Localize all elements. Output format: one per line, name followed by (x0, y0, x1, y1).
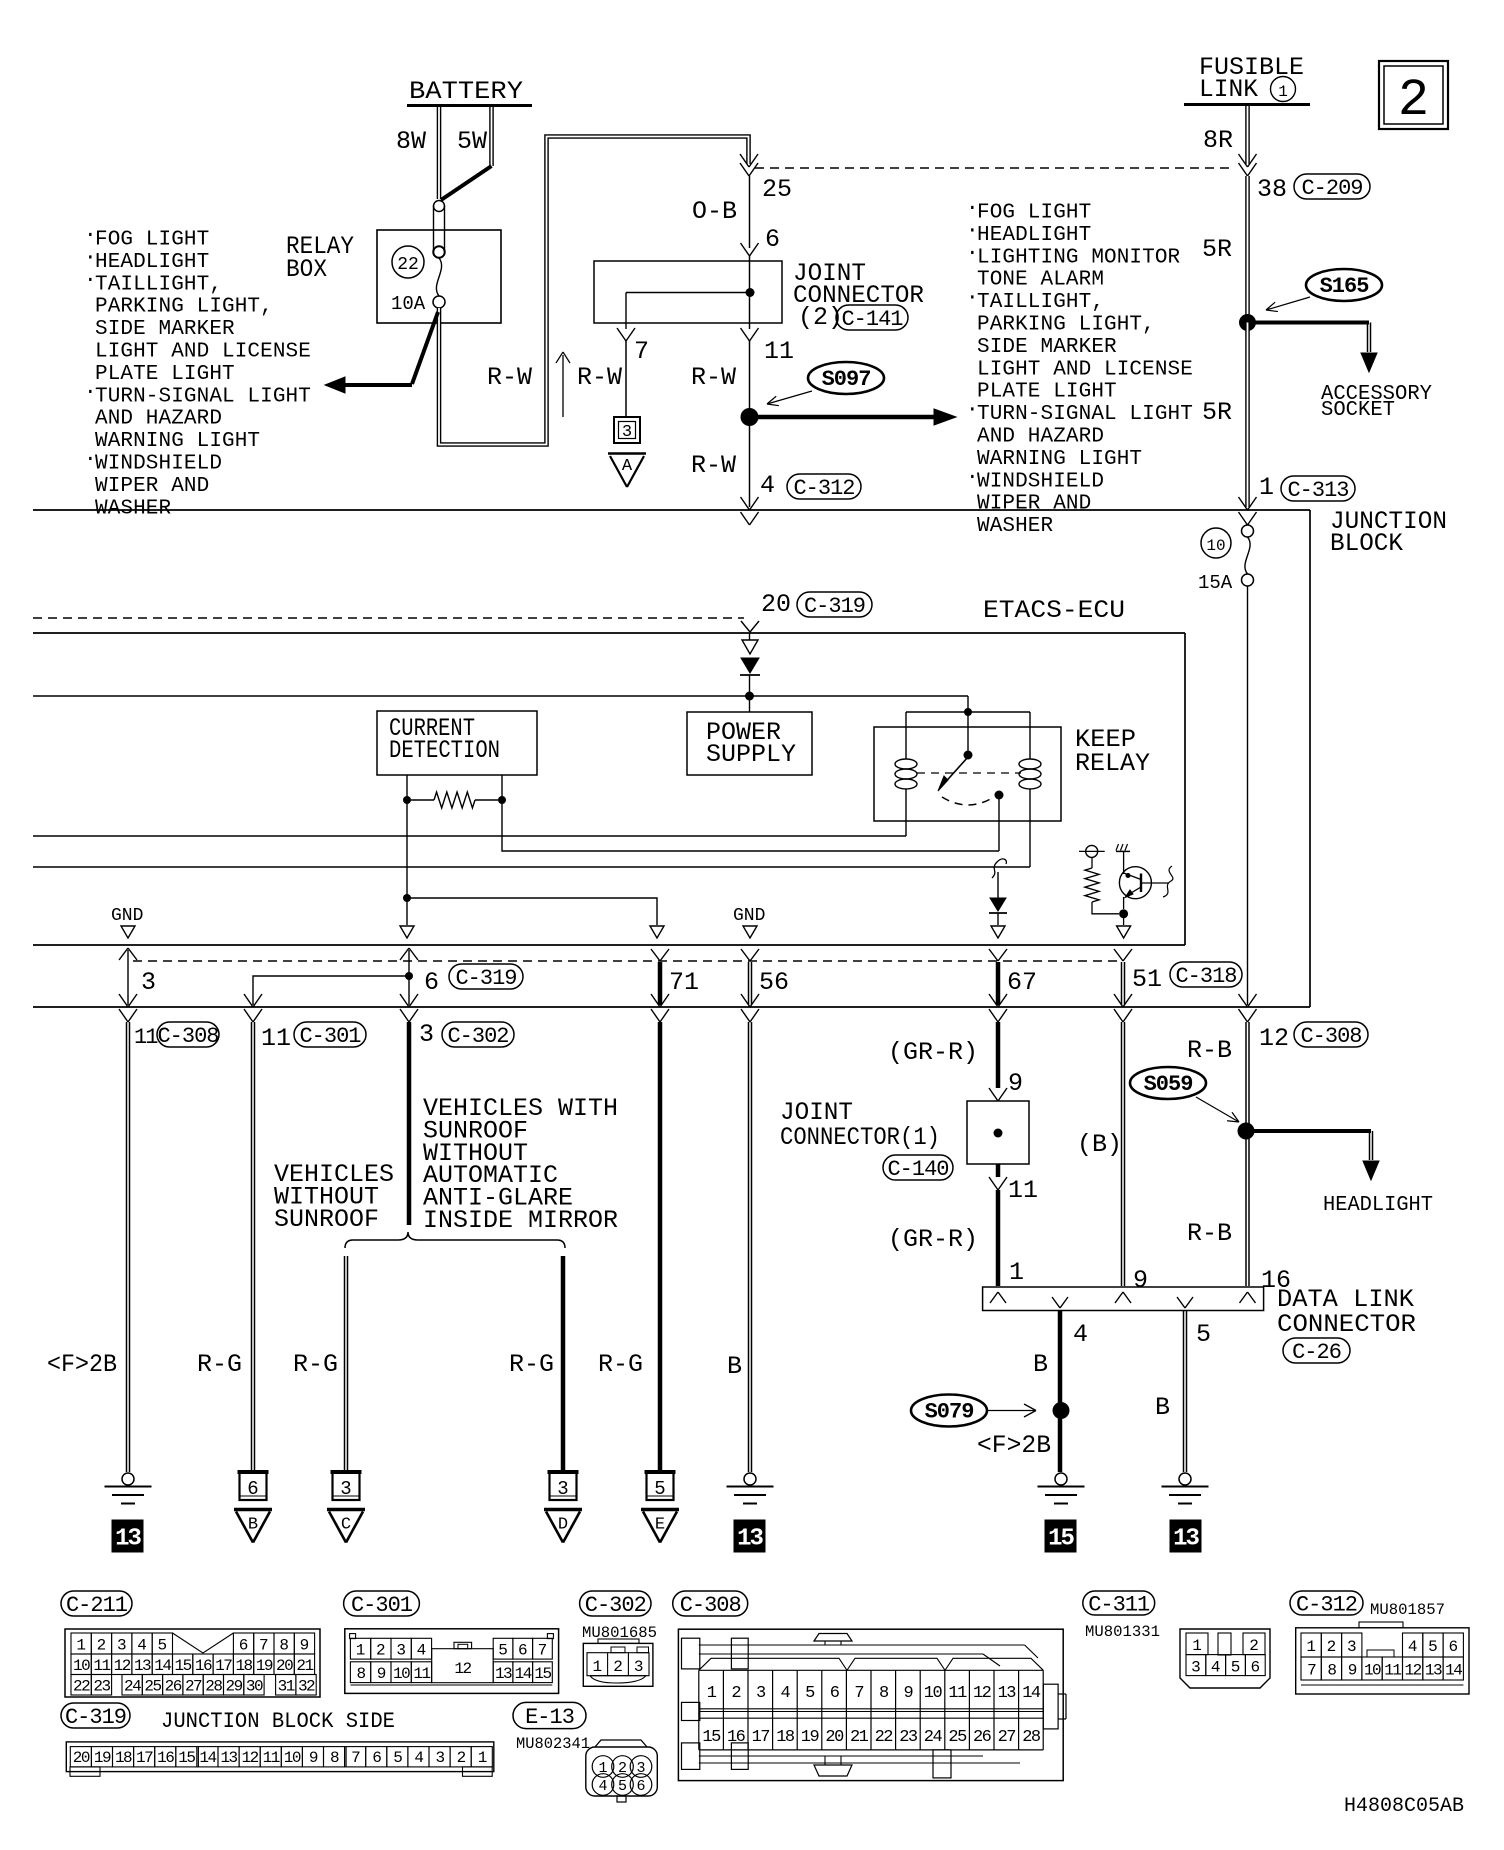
power rail inside ETACS (33, 695, 968, 697)
current detection stubs (406, 775, 408, 800)
svg-text:12: 12 (114, 1657, 131, 1675)
connector C-301 drawing (345, 1629, 559, 1694)
svg-text:2: 2 (1327, 1638, 1337, 1656)
gnd triangle GND right (743, 926, 757, 938)
gnd triangle diode (991, 926, 1005, 938)
keep relay top rail (906, 711, 1030, 713)
fusible link bar (1184, 103, 1310, 106)
wire 5W from battery (489, 107, 494, 166)
svg-text:3: 3 (419, 1020, 434, 1049)
svg-text:S059: S059 (1144, 1072, 1193, 1097)
svg-text:5: 5 (498, 1641, 508, 1659)
svg-text:8: 8 (356, 1665, 365, 1683)
svg-text:25: 25 (948, 1728, 967, 1747)
svg-text:14: 14 (154, 1657, 171, 1675)
svg-text:FOG LIGHT: FOG LIGHT (977, 202, 1091, 225)
ground 5 black box 13 (1170, 1520, 1201, 1552)
ground 5 (1179, 1473, 1191, 1485)
diode solid triangle with bar (741, 658, 759, 673)
svg-text:15: 15 (175, 1657, 192, 1675)
connector E-13 drawing (586, 1740, 658, 1802)
svg-text:B: B (727, 1352, 742, 1381)
svg-text:C-319: C-319 (455, 966, 516, 991)
svg-text:8R: 8R (1203, 126, 1233, 155)
keep relay left coil (905, 712, 907, 759)
svg-text:<F>2B: <F>2B (977, 1431, 1051, 1460)
svg-text:4: 4 (781, 1684, 791, 1703)
svg-text:10: 10 (73, 1657, 90, 1675)
svg-text:30: 30 (246, 1678, 263, 1696)
joint connector 1 box (967, 1101, 1029, 1164)
svg-text:C-319: C-319 (65, 1705, 126, 1730)
svg-text:PARKING LIGHT,: PARKING LIGHT, (95, 296, 273, 319)
junction dot power supply (745, 692, 754, 701)
chevrons wire12 out of junction block (1239, 994, 1248, 1007)
connector box 3 (to A) (614, 417, 640, 443)
wire to power supply box (749, 696, 751, 712)
svg-text:C-301: C-301 (351, 1593, 413, 1618)
svg-text:3: 3 (396, 1641, 406, 1659)
S059 leader (1196, 1097, 1239, 1122)
svg-text:9: 9 (904, 1684, 914, 1703)
svg-text:4: 4 (414, 1749, 423, 1767)
ETACS box right edge (1184, 633, 1186, 945)
junction S165 dot (1239, 314, 1256, 331)
svg-text:9: 9 (309, 1749, 318, 1767)
wire 67 below joint connector (989, 1177, 998, 1190)
capsule C-302 (580, 1591, 651, 1616)
svg-text:LIGHT AND LICENSE: LIGHT AND LICENSE (95, 341, 311, 364)
ground node dot (403, 894, 411, 902)
wire 20 into ETACS (749, 633, 751, 640)
branch wire to C-301 (253, 976, 409, 1005)
connector C-308 drawing (678, 1629, 1066, 1780)
svg-text:2: 2 (457, 1749, 466, 1767)
svg-text:15: 15 (178, 1749, 195, 1767)
wire 3 (GND to C-319) (119, 948, 128, 960)
bus wire y836 (33, 835, 906, 837)
svg-text:O-B: O-B (692, 197, 737, 226)
connector box 5 (647, 1472, 674, 1500)
svg-text:JUNCTION BLOCK SIDE: JUNCTION BLOCK SIDE (161, 1709, 395, 1734)
svg-text:11: 11 (261, 1024, 291, 1053)
svg-text:29: 29 (226, 1678, 243, 1696)
wire 56 (741, 949, 750, 961)
wire 5 DLC (1183, 1311, 1185, 1473)
ground 56 black box 13 (734, 1520, 765, 1552)
svg-text:16: 16 (727, 1728, 746, 1747)
svg-text:R-G: R-G (598, 1350, 643, 1379)
svg-text:SIDE MARKER: SIDE MARKER (977, 336, 1117, 359)
svg-text:FOG LIGHT: FOG LIGHT (95, 229, 209, 252)
svg-text:9: 9 (1348, 1662, 1357, 1680)
svg-text:1: 1 (478, 1749, 487, 1767)
svg-text:6: 6 (239, 1637, 249, 1655)
svg-text:C-311: C-311 (1088, 1593, 1150, 1618)
svg-text:R-W: R-W (577, 363, 622, 392)
svg-text:18: 18 (235, 1657, 252, 1675)
up arrow R-W (562, 355, 564, 417)
svg-text:B: B (1033, 1350, 1048, 1379)
svg-text:R-G: R-G (293, 1350, 338, 1379)
svg-text:(GR-R): (GR-R) (888, 1225, 978, 1254)
svg-text:ETACS-ECU: ETACS-ECU (983, 596, 1125, 625)
fuse 15A symbol (1247, 524, 1249, 527)
svg-text:PLATE LIGHT: PLATE LIGHT (977, 381, 1117, 404)
ground 4 (1055, 1473, 1067, 1485)
svg-text:12: 12 (454, 1660, 471, 1678)
svg-text:PARKING LIGHT,: PARKING LIGHT, (977, 314, 1155, 337)
capsule C-26 (1283, 1338, 1350, 1363)
svg-text:(B): (B) (1077, 1130, 1122, 1159)
svg-text:3: 3 (1191, 1659, 1201, 1677)
svg-text:1: 1 (1278, 83, 1288, 101)
svg-text:17: 17 (136, 1749, 153, 1767)
keep relay switch (967, 712, 969, 755)
wire 11 through S097 (749, 256, 751, 329)
svg-text:R-G: R-G (197, 1350, 242, 1379)
svg-text:13: 13 (998, 1684, 1017, 1703)
svg-text:27: 27 (185, 1678, 202, 1696)
connector box 3 right (550, 1472, 577, 1500)
svg-text:15: 15 (702, 1728, 721, 1747)
triangle E (641, 1508, 679, 1512)
svg-text:E-13: E-13 (525, 1705, 574, 1730)
S059 branch to headlight (1246, 1129, 1371, 1133)
svg-text:5: 5 (158, 1637, 168, 1655)
svg-text:1: 1 (76, 1637, 86, 1655)
svg-text:20: 20 (276, 1657, 293, 1675)
svg-text:15: 15 (1048, 1526, 1074, 1553)
svg-text:13: 13 (495, 1665, 512, 1683)
transistor chassis mark (1116, 850, 1130, 852)
svg-text:6: 6 (830, 1684, 840, 1703)
ground 4 black box 15 (1045, 1520, 1076, 1552)
svg-text:8: 8 (1327, 1662, 1336, 1680)
svg-text:BATTERY: BATTERY (409, 77, 523, 106)
svg-text:19: 19 (256, 1657, 273, 1675)
svg-text:HEADLIGHT: HEADLIGHT (977, 224, 1091, 247)
wire 5W diagonal (441, 166, 492, 200)
svg-text:12: 12 (973, 1684, 991, 1703)
svg-text:C-302: C-302 (585, 1593, 646, 1618)
svg-text:E: E (655, 1516, 665, 1535)
svg-text:AND HAZARD: AND HAZARD (977, 426, 1104, 449)
svg-text:4: 4 (1073, 1320, 1088, 1349)
svg-text:2: 2 (1398, 71, 1429, 130)
svg-text:3: 3 (435, 1749, 444, 1767)
svg-text:28: 28 (205, 1678, 222, 1696)
wire shunt ground down (406, 898, 408, 925)
svg-text:TURN-SIGNAL LIGHT: TURN-SIGNAL LIGHT (977, 403, 1193, 426)
junction S097 dot (741, 408, 759, 426)
connector C-312 drawing (1296, 1622, 1469, 1694)
svg-text:S097: S097 (822, 367, 871, 392)
wire 6 C-319 arrow (400, 948, 409, 960)
svg-text:4: 4 (137, 1637, 147, 1655)
svg-text:3: 3 (141, 968, 156, 997)
svg-text:C-141: C-141 (841, 307, 903, 332)
svg-text:17: 17 (215, 1657, 232, 1675)
capsule C-311 (1083, 1591, 1155, 1615)
transistor emitter node (1119, 909, 1128, 918)
keep relay feed corner (967, 696, 969, 712)
svg-text:5: 5 (1196, 1320, 1211, 1349)
fuse 10 circled (1201, 528, 1231, 558)
svg-text:11: 11 (93, 1657, 110, 1675)
svg-text:11: 11 (948, 1684, 967, 1703)
S097 leader (767, 391, 812, 404)
capsule C-301 (344, 1591, 420, 1616)
ETACS box top edge (33, 632, 1185, 634)
svg-text:15: 15 (534, 1665, 551, 1683)
svg-text:28: 28 (1022, 1728, 1041, 1747)
svg-text:8: 8 (279, 1637, 289, 1655)
svg-text:S165: S165 (1320, 274, 1370, 299)
bus wire y851 (502, 800, 999, 851)
circled 1 (1271, 77, 1296, 102)
svg-text:9: 9 (377, 1665, 386, 1683)
triangle B (234, 1508, 272, 1512)
junction block top edge (33, 509, 1310, 511)
svg-text:7: 7 (259, 1637, 269, 1655)
svg-text:C-313: C-313 (1287, 478, 1348, 503)
svg-text:2: 2 (731, 1684, 740, 1703)
triangle D (544, 1508, 582, 1512)
svg-text:BOX: BOX (286, 255, 327, 284)
diode 67 continuation squiggle (992, 859, 1006, 878)
wire inside junction block right (1247, 586, 1249, 1005)
svg-text:6: 6 (1250, 1659, 1260, 1677)
svg-text:C-308: C-308 (1300, 1024, 1361, 1049)
wire 5R lower (1245, 323, 1250, 508)
bus wire y867 (33, 866, 1030, 868)
branch arrow to other circuits (412, 312, 438, 384)
svg-text:BLOCK: BLOCK (1330, 529, 1403, 558)
wire sunroof branch thick (561, 1256, 566, 1472)
relay box (377, 230, 501, 323)
svg-text:GND: GND (111, 906, 143, 926)
svg-text:3: 3 (117, 1637, 127, 1655)
connector C-302 drawing (583, 1639, 653, 1686)
S059 ellipse (1130, 1067, 1206, 1099)
svg-text:WARNING LIGHT: WARNING LIGHT (977, 448, 1142, 471)
svg-text:5: 5 (1428, 1638, 1438, 1656)
svg-text:4: 4 (1408, 1638, 1418, 1656)
svg-text:R-W: R-W (691, 363, 736, 392)
svg-text:1: 1 (1009, 1258, 1024, 1287)
DLC chevrons (990, 1292, 998, 1303)
svg-text:4: 4 (760, 471, 775, 500)
diode 67 (997, 872, 999, 898)
capsule C-141 (836, 305, 908, 330)
svg-text:D: D (558, 1516, 568, 1535)
ETACS box bottom edge (33, 944, 1185, 946)
connector box 6 (240, 1472, 267, 1500)
svg-text:3: 3 (1347, 1638, 1357, 1656)
svg-text:A: A (622, 457, 633, 476)
svg-text:16: 16 (195, 1657, 212, 1675)
svg-text:12: 12 (242, 1749, 259, 1767)
wire 11 C-308 left (126, 1022, 128, 1472)
svg-text:6: 6 (372, 1749, 381, 1767)
svg-text:13: 13 (1173, 1526, 1199, 1553)
svg-text:WARNING LIGHT: WARNING LIGHT (95, 430, 260, 453)
svg-text:DETECTION: DETECTION (389, 736, 500, 765)
svg-text:C-26: C-26 (1292, 1340, 1341, 1365)
svg-text:S079: S079 (925, 1400, 974, 1425)
dashed connector line C-319/C-318 (133, 960, 1123, 962)
svg-text:C-318: C-318 (1175, 964, 1236, 989)
transistor output squiggle (1141, 882, 1169, 884)
svg-text:3: 3 (340, 1478, 351, 1500)
svg-text:14: 14 (199, 1749, 216, 1767)
svg-text:SUNROOF: SUNROOF (274, 1205, 379, 1234)
svg-text:14: 14 (1445, 1662, 1462, 1680)
svg-text:B: B (1155, 1393, 1170, 1422)
svg-text:3: 3 (634, 1658, 644, 1676)
svg-text:14: 14 (515, 1665, 532, 1683)
capsule E-13 (513, 1702, 586, 1728)
svg-text:WINDSHIELD: WINDSHIELD (977, 470, 1104, 493)
page number box 2 (1379, 61, 1448, 129)
svg-text:C-312: C-312 (793, 476, 854, 501)
svg-text:10: 10 (924, 1684, 943, 1703)
svg-text:18: 18 (776, 1728, 795, 1747)
svg-text:5: 5 (393, 1749, 402, 1767)
joint connector (2) inner wire (626, 292, 750, 294)
data link connector box (983, 1287, 1264, 1311)
S097 ellipse (808, 362, 884, 394)
keep relay box (874, 727, 1061, 821)
junction block bottom edge (33, 1006, 1310, 1008)
svg-text:22: 22 (875, 1728, 893, 1747)
svg-text:38: 38 (1257, 175, 1287, 204)
S097 branch arrow (750, 415, 937, 420)
svg-text:LIGHT AND LICENSE: LIGHT AND LICENSE (977, 358, 1193, 381)
svg-text:22: 22 (73, 1678, 90, 1696)
chevron pin 7 (617, 328, 626, 341)
capsule C-211 (61, 1591, 132, 1616)
dashed wire 20 C-319 (33, 617, 744, 619)
wire 3 C-302 thick (407, 1022, 412, 1225)
svg-text:C-140: C-140 (887, 1157, 948, 1182)
svg-text:GND: GND (733, 906, 765, 926)
ground left (122, 1473, 134, 1485)
wire from relay box down (439, 137, 749, 445)
junction S059 dot (1238, 1123, 1255, 1140)
svg-text:12: 12 (1405, 1662, 1422, 1680)
svg-text:HEADLIGHT: HEADLIGHT (1323, 1194, 1433, 1217)
svg-text:C-209: C-209 (1301, 176, 1362, 201)
svg-text:5: 5 (1231, 1659, 1241, 1677)
power supply box (687, 712, 812, 775)
S079 arrow (987, 1410, 1036, 1412)
gnd triangle branch (650, 926, 664, 938)
junction S079 dot (1053, 1402, 1070, 1419)
pullup circle (1086, 845, 1098, 857)
keep relay common wire (998, 795, 1000, 851)
svg-text:13: 13 (134, 1657, 151, 1675)
wire R-B lower (1245, 1131, 1247, 1286)
chevron 8R to dashed (1239, 154, 1248, 167)
svg-text:8W: 8W (396, 127, 426, 156)
left circuits list (84, 225, 311, 521)
svg-text:R-B: R-B (1187, 1219, 1232, 1248)
svg-text:8: 8 (879, 1684, 889, 1703)
svg-text:19: 19 (801, 1728, 820, 1747)
svg-text:56: 56 (759, 968, 789, 997)
svg-text:4: 4 (598, 1778, 607, 1795)
svg-text:10: 10 (393, 1665, 410, 1683)
gnd triangle shunt (400, 926, 414, 938)
svg-text:15A: 15A (1198, 572, 1233, 594)
svg-text:6: 6 (636, 1778, 645, 1795)
circled 22 (392, 246, 424, 278)
svg-text:MU801331: MU801331 (1085, 1623, 1160, 1641)
svg-text:C-308: C-308 (157, 1024, 218, 1049)
wire 7 down to connector 3 (625, 341, 627, 417)
svg-text:71: 71 (669, 968, 699, 997)
keep relay dashed link (917, 772, 1021, 774)
battery bar (407, 104, 532, 107)
svg-text:19: 19 (94, 1749, 111, 1767)
svg-text:1: 1 (1306, 1638, 1316, 1656)
capsule C-140 (883, 1155, 953, 1180)
S165 ellipse (1306, 269, 1382, 301)
svg-text:9: 9 (1008, 1069, 1023, 1098)
svg-text:11: 11 (263, 1749, 280, 1767)
current detection box (377, 711, 537, 775)
svg-text:7: 7 (538, 1641, 548, 1659)
svg-text:9: 9 (300, 1637, 310, 1655)
svg-text:25: 25 (762, 175, 792, 204)
gnd triangle transistor (1117, 926, 1131, 938)
svg-text:26: 26 (165, 1678, 182, 1696)
svg-text:10: 10 (284, 1749, 301, 1767)
svg-text:2: 2 (376, 1641, 386, 1659)
svg-text:C-302: C-302 (447, 1024, 508, 1049)
triangle A (608, 452, 646, 455)
svg-text:AND HAZARD: AND HAZARD (95, 408, 222, 431)
svg-text:MU802341: MU802341 (516, 1735, 590, 1753)
joint connector (2) junction dot (746, 288, 755, 297)
svg-text:21: 21 (850, 1728, 869, 1747)
right circuits list (966, 198, 1193, 539)
svg-text:R-G: R-G (509, 1350, 554, 1379)
svg-text:10: 10 (1206, 537, 1225, 555)
svg-text:13: 13 (115, 1526, 141, 1553)
svg-text:CONNECTOR(1): CONNECTOR(1) (780, 1123, 940, 1152)
ground left black box 13 (112, 1520, 143, 1552)
svg-text:24: 24 (124, 1678, 141, 1696)
junction block right edge (1309, 510, 1311, 1007)
svg-text:4: 4 (417, 1641, 427, 1659)
svg-text:TAILLIGHT,: TAILLIGHT, (95, 273, 222, 296)
svg-text:11: 11 (1384, 1662, 1401, 1680)
svg-text:1: 1 (1259, 473, 1274, 502)
svg-text:20: 20 (825, 1728, 844, 1747)
svg-text:27: 27 (998, 1728, 1016, 1747)
wire 25 to joint connector (749, 176, 751, 248)
svg-text:B: B (248, 1516, 258, 1535)
svg-text:32: 32 (298, 1678, 315, 1696)
svg-text:6: 6 (424, 968, 439, 997)
svg-text:11: 11 (764, 337, 794, 366)
svg-text:1: 1 (707, 1684, 717, 1703)
wire 8R (1245, 106, 1250, 164)
svg-text:67: 67 (1007, 968, 1037, 997)
